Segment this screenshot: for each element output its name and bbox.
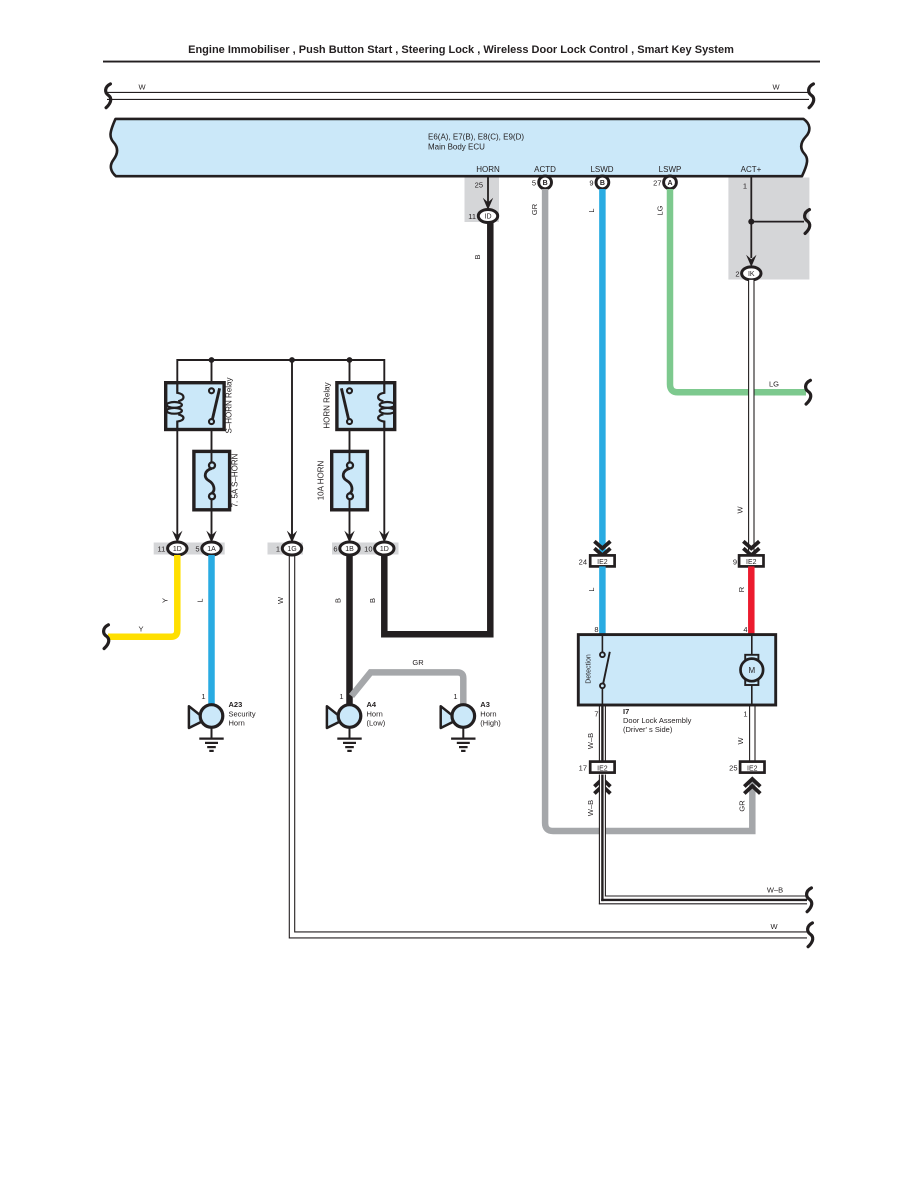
svg-text:1D: 1D [173, 546, 182, 553]
svg-text:M: M [748, 666, 755, 675]
svg-text:IE2: IE2 [597, 559, 608, 566]
svg-text:W–B: W–B [767, 886, 783, 895]
arrow chevrons out of IE2-25 [744, 779, 760, 794]
svg-text:ID: ID [485, 214, 492, 221]
svg-text:W: W [138, 83, 146, 92]
motor M [741, 635, 764, 705]
horn A4 Horn (Low) [327, 692, 386, 728]
break symbol top-right [809, 84, 814, 108]
svg-text:W–B: W–B [586, 800, 595, 816]
svg-text:W: W [276, 596, 285, 604]
svg-text:27: 27 [653, 179, 661, 188]
label I7 Door Lock Assembly [623, 707, 692, 734]
wire 1G leg [291, 360, 293, 536]
ECU box E6(A),E7(B),E8(C),E9(D) Main Body ECU [111, 119, 810, 176]
svg-text:Horn: Horn [229, 719, 245, 728]
title [103, 44, 820, 63]
svg-text:4: 4 [743, 625, 747, 634]
svg-text:(Driver' s Side): (Driver' s Side) [623, 725, 673, 734]
connector 10 1D [364, 542, 394, 555]
svg-text:11: 11 [468, 212, 476, 221]
ground at A23 [199, 727, 223, 751]
connector 24 IE2 [579, 555, 615, 566]
shield strip at 1G [268, 543, 304, 555]
svg-text:Y: Y [138, 625, 143, 634]
wire W white from 1G to bottom [289, 555, 807, 938]
svg-text:W: W [736, 506, 745, 514]
shield strip at 1D/1A [154, 543, 225, 555]
arrow into connector 1D right [379, 531, 389, 543]
arrow into connector ID [483, 198, 493, 210]
svg-text:Main Body ECU: Main Body ECU [428, 142, 485, 151]
svg-text:Detection: Detection [586, 654, 593, 684]
arrow into connector IK [746, 255, 756, 267]
svg-text:IK: IK [748, 271, 755, 278]
wire HORN coil leg to 1D [383, 430, 385, 537]
connector 5 1A [195, 542, 221, 555]
connector B at ACTD [539, 176, 552, 189]
junction node at HORN relay switch leg [347, 357, 353, 363]
break symbol W-B bottom [807, 888, 812, 912]
connector 11 1D [158, 542, 187, 555]
svg-text:HORN Relay: HORN Relay [323, 382, 332, 428]
svg-text:6: 6 [333, 545, 337, 554]
svg-text:1: 1 [276, 545, 280, 554]
svg-text:W–B: W–B [586, 733, 595, 749]
svg-text:5: 5 [532, 179, 536, 188]
relay S-HORN Relay [166, 383, 224, 430]
wire S-HORN coil leg to 1D [176, 430, 178, 537]
wire B black to horn low [346, 555, 353, 705]
wire HORN relay switch leg [349, 360, 351, 383]
junction node at S-HORN switch leg [209, 357, 215, 363]
svg-text:B: B [600, 180, 605, 187]
connector 25 IE2 [729, 762, 764, 773]
svg-text:W: W [770, 922, 778, 931]
shield box at HORN pin [465, 178, 500, 223]
svg-text:W: W [736, 737, 745, 745]
svg-text:1A: 1A [207, 546, 216, 553]
fuse 10A HORN [332, 430, 368, 537]
arrow into connector 1A [206, 531, 216, 543]
arrow into connector 1B [344, 531, 354, 543]
wire W-B to bottom run [599, 775, 807, 905]
ground at A3 [451, 727, 475, 751]
svg-text:IE2: IE2 [746, 559, 757, 566]
arrow chevrons into IE2-9 [743, 541, 759, 555]
svg-text:1: 1 [743, 182, 747, 191]
svg-text:I7: I7 [623, 707, 629, 716]
svg-text:9: 9 [589, 179, 593, 188]
svg-text:24: 24 [579, 557, 587, 566]
svg-text:8: 8 [594, 625, 598, 634]
svg-text:HORN: HORN [476, 165, 500, 174]
wire L blue from LSWD [599, 189, 606, 556]
svg-text:L: L [587, 587, 596, 591]
connector 11 ID [468, 210, 497, 223]
svg-text:1: 1 [339, 692, 343, 701]
horn A23 Security Horn [189, 692, 256, 728]
svg-text:10A HORN: 10A HORN [317, 460, 326, 500]
connector A at LSWP [664, 176, 677, 189]
svg-text:A23: A23 [229, 700, 243, 709]
wire Y yellow [108, 555, 177, 637]
wire from ACT+ pin 1 [750, 178, 752, 259]
svg-text:IE2: IE2 [747, 765, 758, 772]
svg-text:10: 10 [364, 545, 372, 554]
connector 2 IK [735, 267, 761, 280]
svg-text:W: W [772, 83, 780, 92]
wire branch to right [751, 221, 804, 223]
svg-text:1B: 1B [345, 546, 354, 553]
svg-text:1D: 1D [380, 546, 389, 553]
svg-text:R: R [737, 586, 746, 592]
break symbol ACT+ branch [805, 210, 810, 234]
svg-text:Engine Immobiliser , Push Butt: Engine Immobiliser , Push Button Start ,… [188, 44, 734, 56]
wire relay feed bus [177, 360, 384, 383]
svg-text:LG: LG [769, 380, 779, 389]
arrow into connector 1D left [172, 531, 182, 543]
connector B at LSWD [596, 176, 609, 189]
svg-text:LSWD: LSWD [590, 165, 613, 174]
wire L blue to door lock pin 8 [599, 566, 606, 634]
svg-text:ACT+: ACT+ [741, 165, 762, 174]
door lock assembly I7 box [578, 635, 775, 705]
svg-text:IE2: IE2 [597, 765, 608, 772]
svg-text:GR: GR [738, 800, 747, 812]
svg-text:1: 1 [743, 710, 747, 719]
wire W from pin 1 to IE2-25 [750, 705, 755, 762]
svg-text:17: 17 [579, 764, 587, 773]
shield strip at 1B/1D [332, 543, 399, 555]
svg-text:E6(A), E7(B), E8(C), E9(D): E6(A), E7(B), E8(C), E9(D) [428, 133, 524, 142]
wire B thick black HORN run [384, 221, 490, 634]
connector 17 IE2 [579, 762, 615, 773]
ground at A4 [337, 727, 361, 751]
svg-text:2: 2 [735, 269, 739, 278]
svg-text:GR: GR [530, 203, 539, 215]
svg-text:1G: 1G [287, 546, 296, 553]
svg-text:(Low): (Low) [367, 719, 386, 728]
svg-text:Security: Security [229, 709, 256, 718]
junction node [748, 219, 754, 225]
svg-text:1: 1 [453, 692, 457, 701]
wire L blue to security horn [208, 555, 215, 705]
svg-text:GR: GR [412, 658, 424, 667]
svg-text:(High): (High) [480, 719, 501, 728]
fuse 7.5A S-HORN [194, 430, 230, 537]
svg-text:Horn: Horn [367, 709, 383, 718]
connector 9 IE2 [733, 555, 764, 566]
svg-text:B: B [543, 180, 548, 187]
horn A3 Horn (High) [441, 692, 502, 728]
wire W top bus [107, 92, 809, 99]
wire GR from ACTD to IE2-25 [545, 189, 752, 831]
svg-text:Horn: Horn [480, 709, 496, 718]
connector 1 1G [276, 542, 302, 555]
svg-text:S–HORN Relay: S–HORN Relay [225, 377, 234, 433]
svg-text:25: 25 [729, 764, 737, 773]
svg-text:A4: A4 [367, 700, 377, 709]
arrow chevrons into IE2-24 [594, 541, 610, 555]
detection switch [600, 635, 610, 705]
break symbol LG right [806, 380, 811, 404]
arrow chevrons out of IE2-17 [594, 779, 610, 794]
wire R red to door lock pin 4 [748, 566, 755, 634]
svg-text:B: B [368, 598, 377, 603]
break symbol top-left [106, 84, 111, 108]
junction node at 1G leg [289, 357, 295, 363]
connector 6 1B [333, 542, 359, 555]
wire from HORN pin 25 [487, 178, 489, 204]
svg-text:LG: LG [656, 205, 665, 215]
svg-text:Door Lock Assembly: Door Lock Assembly [623, 716, 692, 725]
svg-text:LSWP: LSWP [659, 165, 682, 174]
svg-text:7. 5A S–HORN: 7. 5A S–HORN [231, 453, 240, 507]
svg-text:B: B [334, 598, 343, 603]
svg-text:9: 9 [733, 557, 737, 566]
arrow into connector 1G [287, 531, 297, 543]
svg-text:L: L [587, 208, 596, 212]
svg-text:B: B [473, 254, 482, 259]
svg-text:11: 11 [158, 545, 166, 554]
wire S-HORN switch leg [211, 360, 213, 383]
break symbol yellow wire [104, 625, 109, 649]
svg-text:Y: Y [161, 598, 170, 603]
wire GR jumper horn low to horn high [352, 672, 464, 705]
svg-text:5: 5 [195, 545, 199, 554]
svg-text:A: A [667, 180, 672, 187]
break symbol W bottom [808, 923, 813, 947]
svg-text:7: 7 [594, 710, 598, 719]
svg-text:25: 25 [475, 181, 483, 190]
shield box at ACT+ pin [728, 178, 809, 280]
svg-text:ACTD: ACTD [534, 165, 556, 174]
svg-text:A3: A3 [480, 700, 490, 709]
wire LG green from LSWP [670, 189, 806, 392]
svg-text:L: L [196, 598, 205, 602]
wire W white from IK to IE2-9 [749, 280, 754, 556]
wire W-B from pin 7 to IE2-17 [599, 705, 605, 762]
svg-text:1: 1 [201, 692, 205, 701]
relay HORN Relay [337, 383, 395, 430]
